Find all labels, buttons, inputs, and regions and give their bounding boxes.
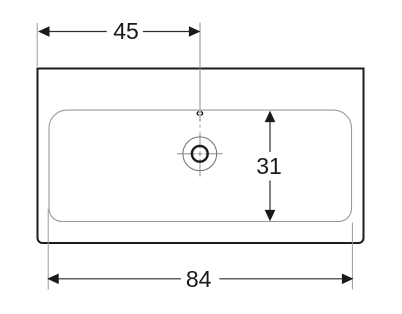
dimension 45 arrow left bbox=[38, 26, 50, 37]
dimension 31 arrow up bbox=[265, 111, 276, 123]
dimension 31 line bbox=[269, 122, 271, 211]
centerline vertical bbox=[199, 23, 201, 177]
washbasin outer outline bbox=[38, 69, 364, 244]
dimension 84 arrow left bbox=[47, 274, 59, 285]
centerline horizontal (drain crosshair) bbox=[177, 153, 223, 155]
dimension 45 line bbox=[40, 31, 199, 33]
drain inner circle bbox=[192, 146, 208, 162]
dimension 84 arrow right bbox=[342, 274, 354, 285]
svg-text:45: 45 bbox=[113, 18, 139, 44]
basin inner rim bbox=[49, 110, 352, 221]
drain outer circle bbox=[183, 137, 217, 171]
tap hole bbox=[197, 112, 202, 115]
dimension 45 extension line left bbox=[36, 23, 38, 67]
dimension 31 arrow down bbox=[265, 210, 276, 222]
dimension 84 line bbox=[50, 278, 352, 280]
svg-text:84: 84 bbox=[186, 266, 212, 292]
dimension 45 arrow right bbox=[189, 26, 201, 37]
dimension 84 extension line left bbox=[47, 209, 49, 290]
dimension 84 extension line right bbox=[351, 223, 353, 290]
svg-text:31: 31 bbox=[256, 153, 282, 179]
